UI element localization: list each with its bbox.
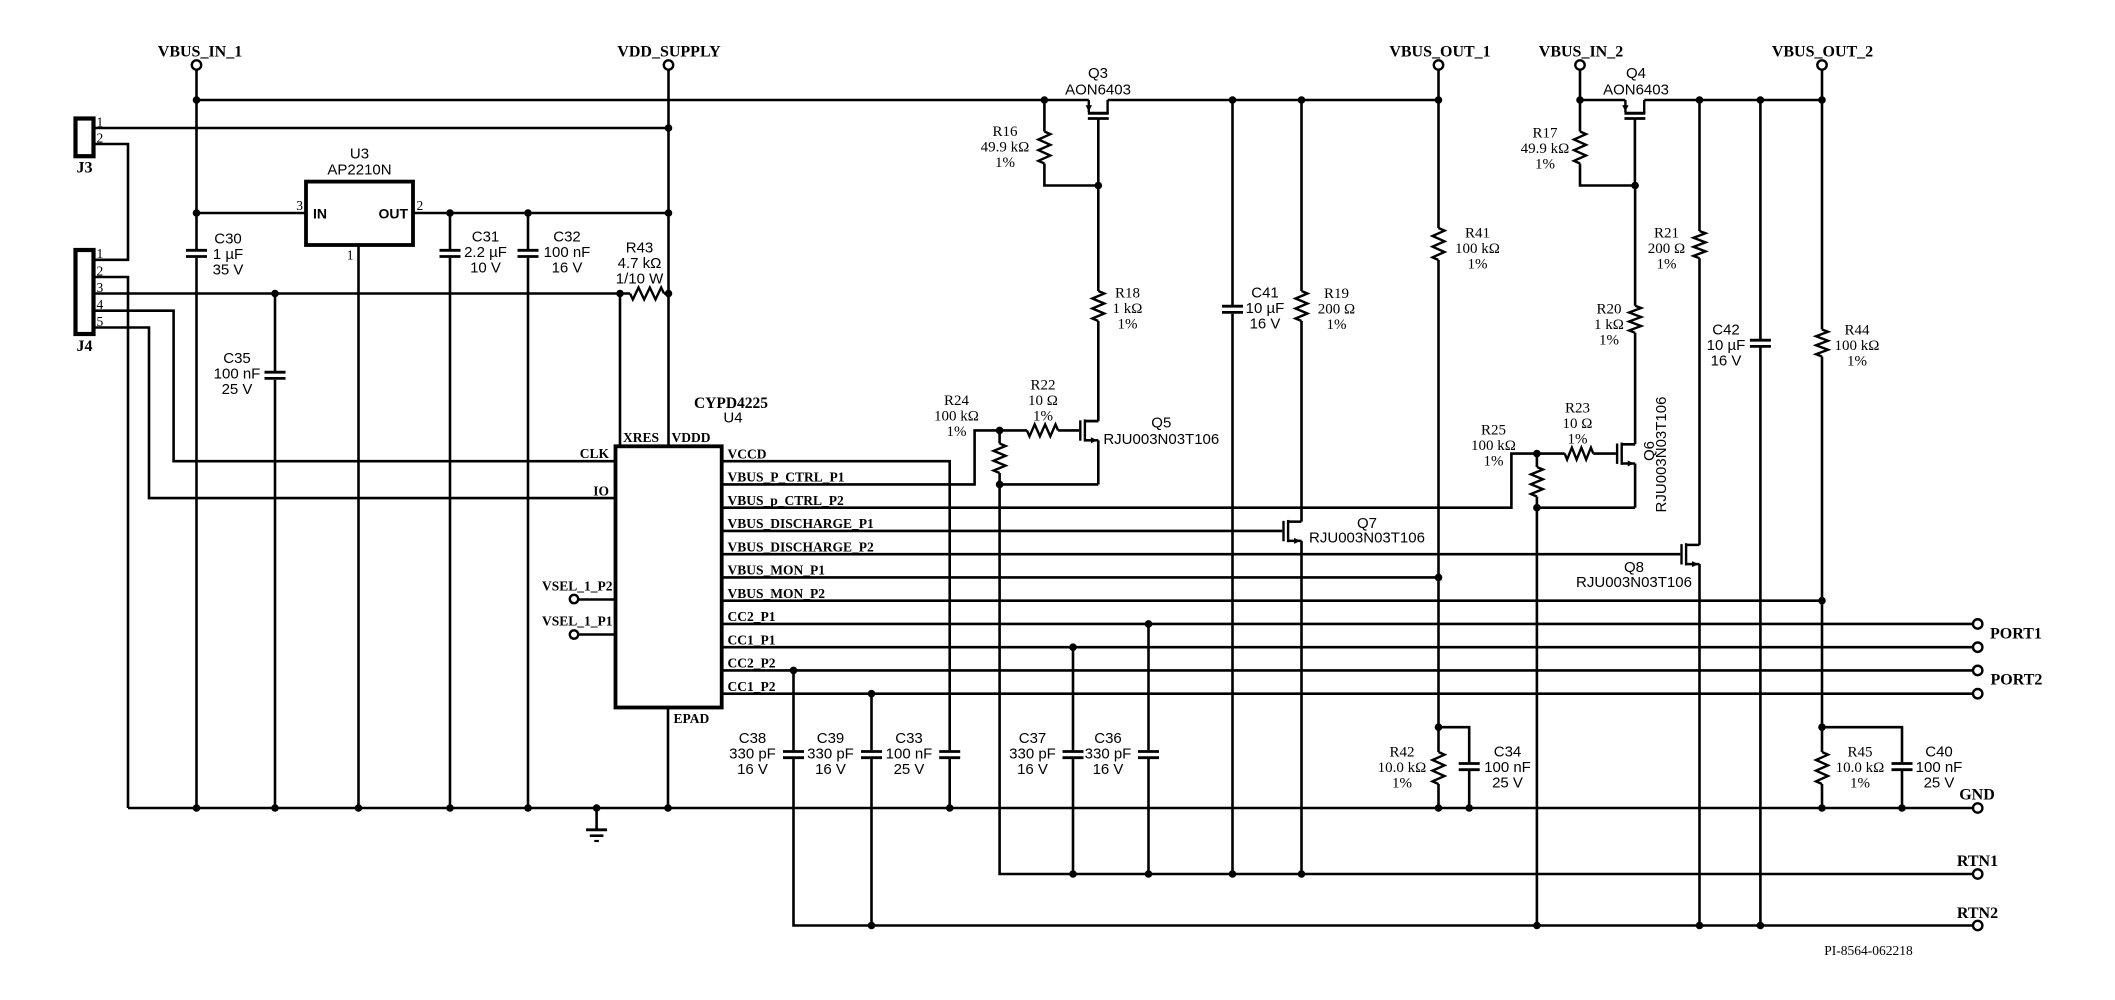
svg-text:Q3: Q3 <box>1088 65 1108 82</box>
svg-text:RTN2: RTN2 <box>1957 905 1998 922</box>
svg-text:R18: R18 <box>1115 286 1140 302</box>
svg-text:10 Ω: 10 Ω <box>1563 416 1593 432</box>
svg-text:25 V: 25 V <box>1492 775 1523 792</box>
svg-text:R44: R44 <box>1844 323 1870 339</box>
svg-text:10.0 kΩ: 10.0 kΩ <box>1836 760 1885 776</box>
svg-text:1%: 1% <box>1392 776 1412 792</box>
svg-text:OUT: OUT <box>378 206 408 222</box>
svg-text:1: 1 <box>97 115 104 130</box>
svg-text:1%: 1% <box>1599 333 1619 349</box>
svg-text:1: 1 <box>347 248 354 263</box>
svg-text:10 Ω: 10 Ω <box>1028 393 1058 409</box>
svg-text:35 V: 35 V <box>213 262 244 279</box>
svg-text:U3: U3 <box>350 145 369 162</box>
svg-text:1 kΩ: 1 kΩ <box>1594 317 1624 333</box>
svg-text:3: 3 <box>296 198 303 213</box>
svg-text:VDD_SUPPLY: VDD_SUPPLY <box>617 44 721 61</box>
svg-text:1%: 1% <box>1850 776 1870 792</box>
svg-text:1%: 1% <box>1033 409 1053 425</box>
svg-text:GND: GND <box>1959 787 1995 804</box>
svg-text:CC2_P1: CC2_P1 <box>728 609 776 624</box>
svg-text:R24: R24 <box>944 393 970 409</box>
svg-text:PORT1: PORT1 <box>1990 626 2042 643</box>
svg-text:RJU003N03T106: RJU003N03T106 <box>1103 431 1219 448</box>
svg-text:VBUS_OUT_1: VBUS_OUT_1 <box>1389 44 1490 61</box>
svg-text:49.9 kΩ: 49.9 kΩ <box>981 140 1030 156</box>
svg-text:16 V: 16 V <box>1017 761 1048 778</box>
svg-text:16 V: 16 V <box>1250 316 1281 333</box>
svg-text:1: 1 <box>97 246 104 261</box>
svg-text:CC1_P1: CC1_P1 <box>728 632 776 647</box>
svg-text:R22: R22 <box>1030 378 1055 394</box>
svg-text:RJU003N03T106: RJU003N03T106 <box>1309 529 1425 546</box>
svg-text:R16: R16 <box>992 124 1018 140</box>
svg-text:16 V: 16 V <box>815 761 846 778</box>
svg-text:IN: IN <box>313 206 327 222</box>
svg-text:XRES: XRES <box>623 430 659 445</box>
svg-text:5: 5 <box>97 314 104 329</box>
svg-text:1%: 1% <box>1568 432 1588 448</box>
svg-text:25 V: 25 V <box>1924 775 1955 792</box>
svg-text:Q4: Q4 <box>1626 65 1646 82</box>
svg-text:VBUS_DISCHARGE_P1: VBUS_DISCHARGE_P1 <box>728 516 875 531</box>
svg-text:1%: 1% <box>1847 354 1867 370</box>
svg-text:VSEL_1_P2: VSEL_1_P2 <box>542 579 613 594</box>
svg-text:VBUS_MON_P2: VBUS_MON_P2 <box>728 586 826 601</box>
svg-text:VBUS_IN_2: VBUS_IN_2 <box>1539 44 1623 61</box>
svg-text:16 V: 16 V <box>1093 761 1124 778</box>
svg-text:AON6403: AON6403 <box>1065 81 1131 98</box>
svg-text:PORT2: PORT2 <box>1991 672 2043 689</box>
svg-text:CLK: CLK <box>580 446 610 461</box>
svg-text:R25: R25 <box>1481 423 1506 439</box>
svg-text:PI-8564-062218: PI-8564-062218 <box>1824 943 1913 958</box>
svg-text:VCCD: VCCD <box>728 446 767 461</box>
svg-text:16 V: 16 V <box>552 260 583 277</box>
svg-text:AON6403: AON6403 <box>1603 81 1669 98</box>
svg-text:VBUS_IN_1: VBUS_IN_1 <box>158 44 242 61</box>
svg-text:VBUS_MON_P1: VBUS_MON_P1 <box>728 563 826 578</box>
svg-text:10.0 kΩ: 10.0 kΩ <box>1378 760 1427 776</box>
svg-text:49.9 kΩ: 49.9 kΩ <box>1521 141 1570 157</box>
svg-text:CC2_P2: CC2_P2 <box>728 656 776 671</box>
svg-text:R41: R41 <box>1465 226 1490 242</box>
svg-text:1%: 1% <box>1468 257 1488 273</box>
svg-text:RTN1: RTN1 <box>1957 853 1998 870</box>
svg-text:10 V: 10 V <box>470 260 501 277</box>
svg-text:200 Ω: 200 Ω <box>1648 241 1685 257</box>
svg-text:VBUS_OUT_2: VBUS_OUT_2 <box>1772 44 1873 61</box>
svg-text:100 kΩ: 100 kΩ <box>934 409 979 425</box>
svg-text:1%: 1% <box>1484 454 1504 470</box>
svg-text:AP2210N: AP2210N <box>327 162 391 179</box>
svg-text:1 kΩ: 1 kΩ <box>1113 301 1143 317</box>
svg-text:VBUS_DISCHARGE_P2: VBUS_DISCHARGE_P2 <box>728 539 875 554</box>
svg-text:3: 3 <box>97 280 104 295</box>
svg-text:16 V: 16 V <box>1711 353 1742 370</box>
svg-text:1/10 W: 1/10 W <box>616 271 664 288</box>
svg-text:VSEL_1_P1: VSEL_1_P1 <box>542 614 613 629</box>
svg-text:100 kΩ: 100 kΩ <box>1835 338 1880 354</box>
svg-text:25 V: 25 V <box>894 761 925 778</box>
svg-text:EPAD: EPAD <box>674 711 710 726</box>
svg-text:VBUS_P_CTRL_P1: VBUS_P_CTRL_P1 <box>728 470 845 485</box>
svg-text:U4: U4 <box>723 410 742 427</box>
svg-text:RJU003N03T106: RJU003N03T106 <box>1576 574 1692 591</box>
svg-text:RJU003N03T106: RJU003N03T106 <box>1653 397 1670 513</box>
svg-text:2: 2 <box>97 263 104 278</box>
svg-text:1%: 1% <box>1535 157 1555 173</box>
svg-text:16 V: 16 V <box>737 761 768 778</box>
svg-text:1%: 1% <box>1327 317 1347 333</box>
svg-text:100 kΩ: 100 kΩ <box>1455 241 1500 257</box>
svg-text:J4: J4 <box>77 338 93 355</box>
svg-text:CC1_P2: CC1_P2 <box>728 679 776 694</box>
svg-text:J3: J3 <box>77 160 93 177</box>
svg-text:VBUS_p_CTRL_P2: VBUS_p_CTRL_P2 <box>728 493 845 508</box>
svg-text:R42: R42 <box>1389 745 1414 761</box>
svg-text:200 Ω: 200 Ω <box>1318 302 1355 318</box>
svg-text:Q5: Q5 <box>1151 415 1171 432</box>
svg-text:R17: R17 <box>1532 126 1558 142</box>
svg-text:R19: R19 <box>1324 286 1349 302</box>
svg-text:VDDD: VDDD <box>672 430 711 445</box>
svg-text:1%: 1% <box>947 424 967 440</box>
svg-text:4: 4 <box>97 297 104 312</box>
svg-text:1%: 1% <box>1118 317 1138 333</box>
svg-text:100 kΩ: 100 kΩ <box>1471 438 1516 454</box>
svg-text:R45: R45 <box>1847 745 1872 761</box>
svg-text:IO: IO <box>593 483 609 498</box>
svg-text:R21: R21 <box>1654 226 1679 242</box>
svg-text:1%: 1% <box>995 155 1015 171</box>
svg-text:25 V: 25 V <box>222 381 253 398</box>
svg-text:1%: 1% <box>1657 257 1677 273</box>
svg-text:2: 2 <box>97 131 104 146</box>
svg-text:R23: R23 <box>1565 401 1590 417</box>
svg-text:R20: R20 <box>1596 302 1621 318</box>
svg-text:2: 2 <box>417 198 424 213</box>
